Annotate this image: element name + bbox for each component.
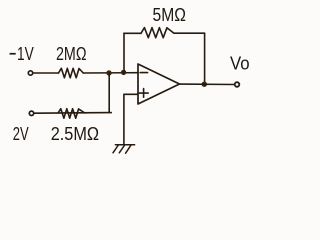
svg-text:2V: 2V xyxy=(13,124,29,144)
wire node A down to 2V branch xyxy=(108,73,110,113)
wire -1V terminal to R1 xyxy=(33,72,58,74)
terminal input 2V xyxy=(29,111,33,115)
svg-text:5MΩ: 5MΩ xyxy=(153,5,186,25)
terminal output Vo xyxy=(235,82,240,87)
wire R1 to op-amp inverting input (through node A and node B) xyxy=(83,72,138,74)
wire op-amp output to Vo terminal xyxy=(180,83,235,85)
terminal input -1V xyxy=(28,71,32,75)
wire non-inverting input to ground branch xyxy=(124,94,138,145)
svg-text:Vo: Vo xyxy=(230,53,250,73)
resistor R2 2.5MΩ xyxy=(58,109,85,119)
node C output junction dot xyxy=(202,82,207,87)
label -1V minus dash xyxy=(10,53,16,55)
wire feedback right vertical down to output node xyxy=(204,33,206,84)
svg-text:2MΩ: 2MΩ xyxy=(56,44,87,64)
op-amp U1 plus sign (non-inverting input) xyxy=(139,89,148,98)
wire feedback top horizontal xyxy=(124,32,205,34)
wire 2V branch horizontal xyxy=(34,112,111,115)
wire feedback left vertical (node B up) xyxy=(123,33,125,72)
op-amp U1 minus sign (inverting input) xyxy=(140,72,147,74)
resistor R1 2MΩ xyxy=(59,68,84,78)
ground xyxy=(113,145,135,153)
node B junction dot xyxy=(121,70,126,75)
resistor R3 5MΩ feedback xyxy=(141,28,174,38)
node A junction dot xyxy=(106,70,111,75)
svg-text:2.5MΩ: 2.5MΩ xyxy=(51,124,99,144)
svg-text:1V: 1V xyxy=(17,44,34,64)
op-amp U1 triangle xyxy=(138,64,180,104)
